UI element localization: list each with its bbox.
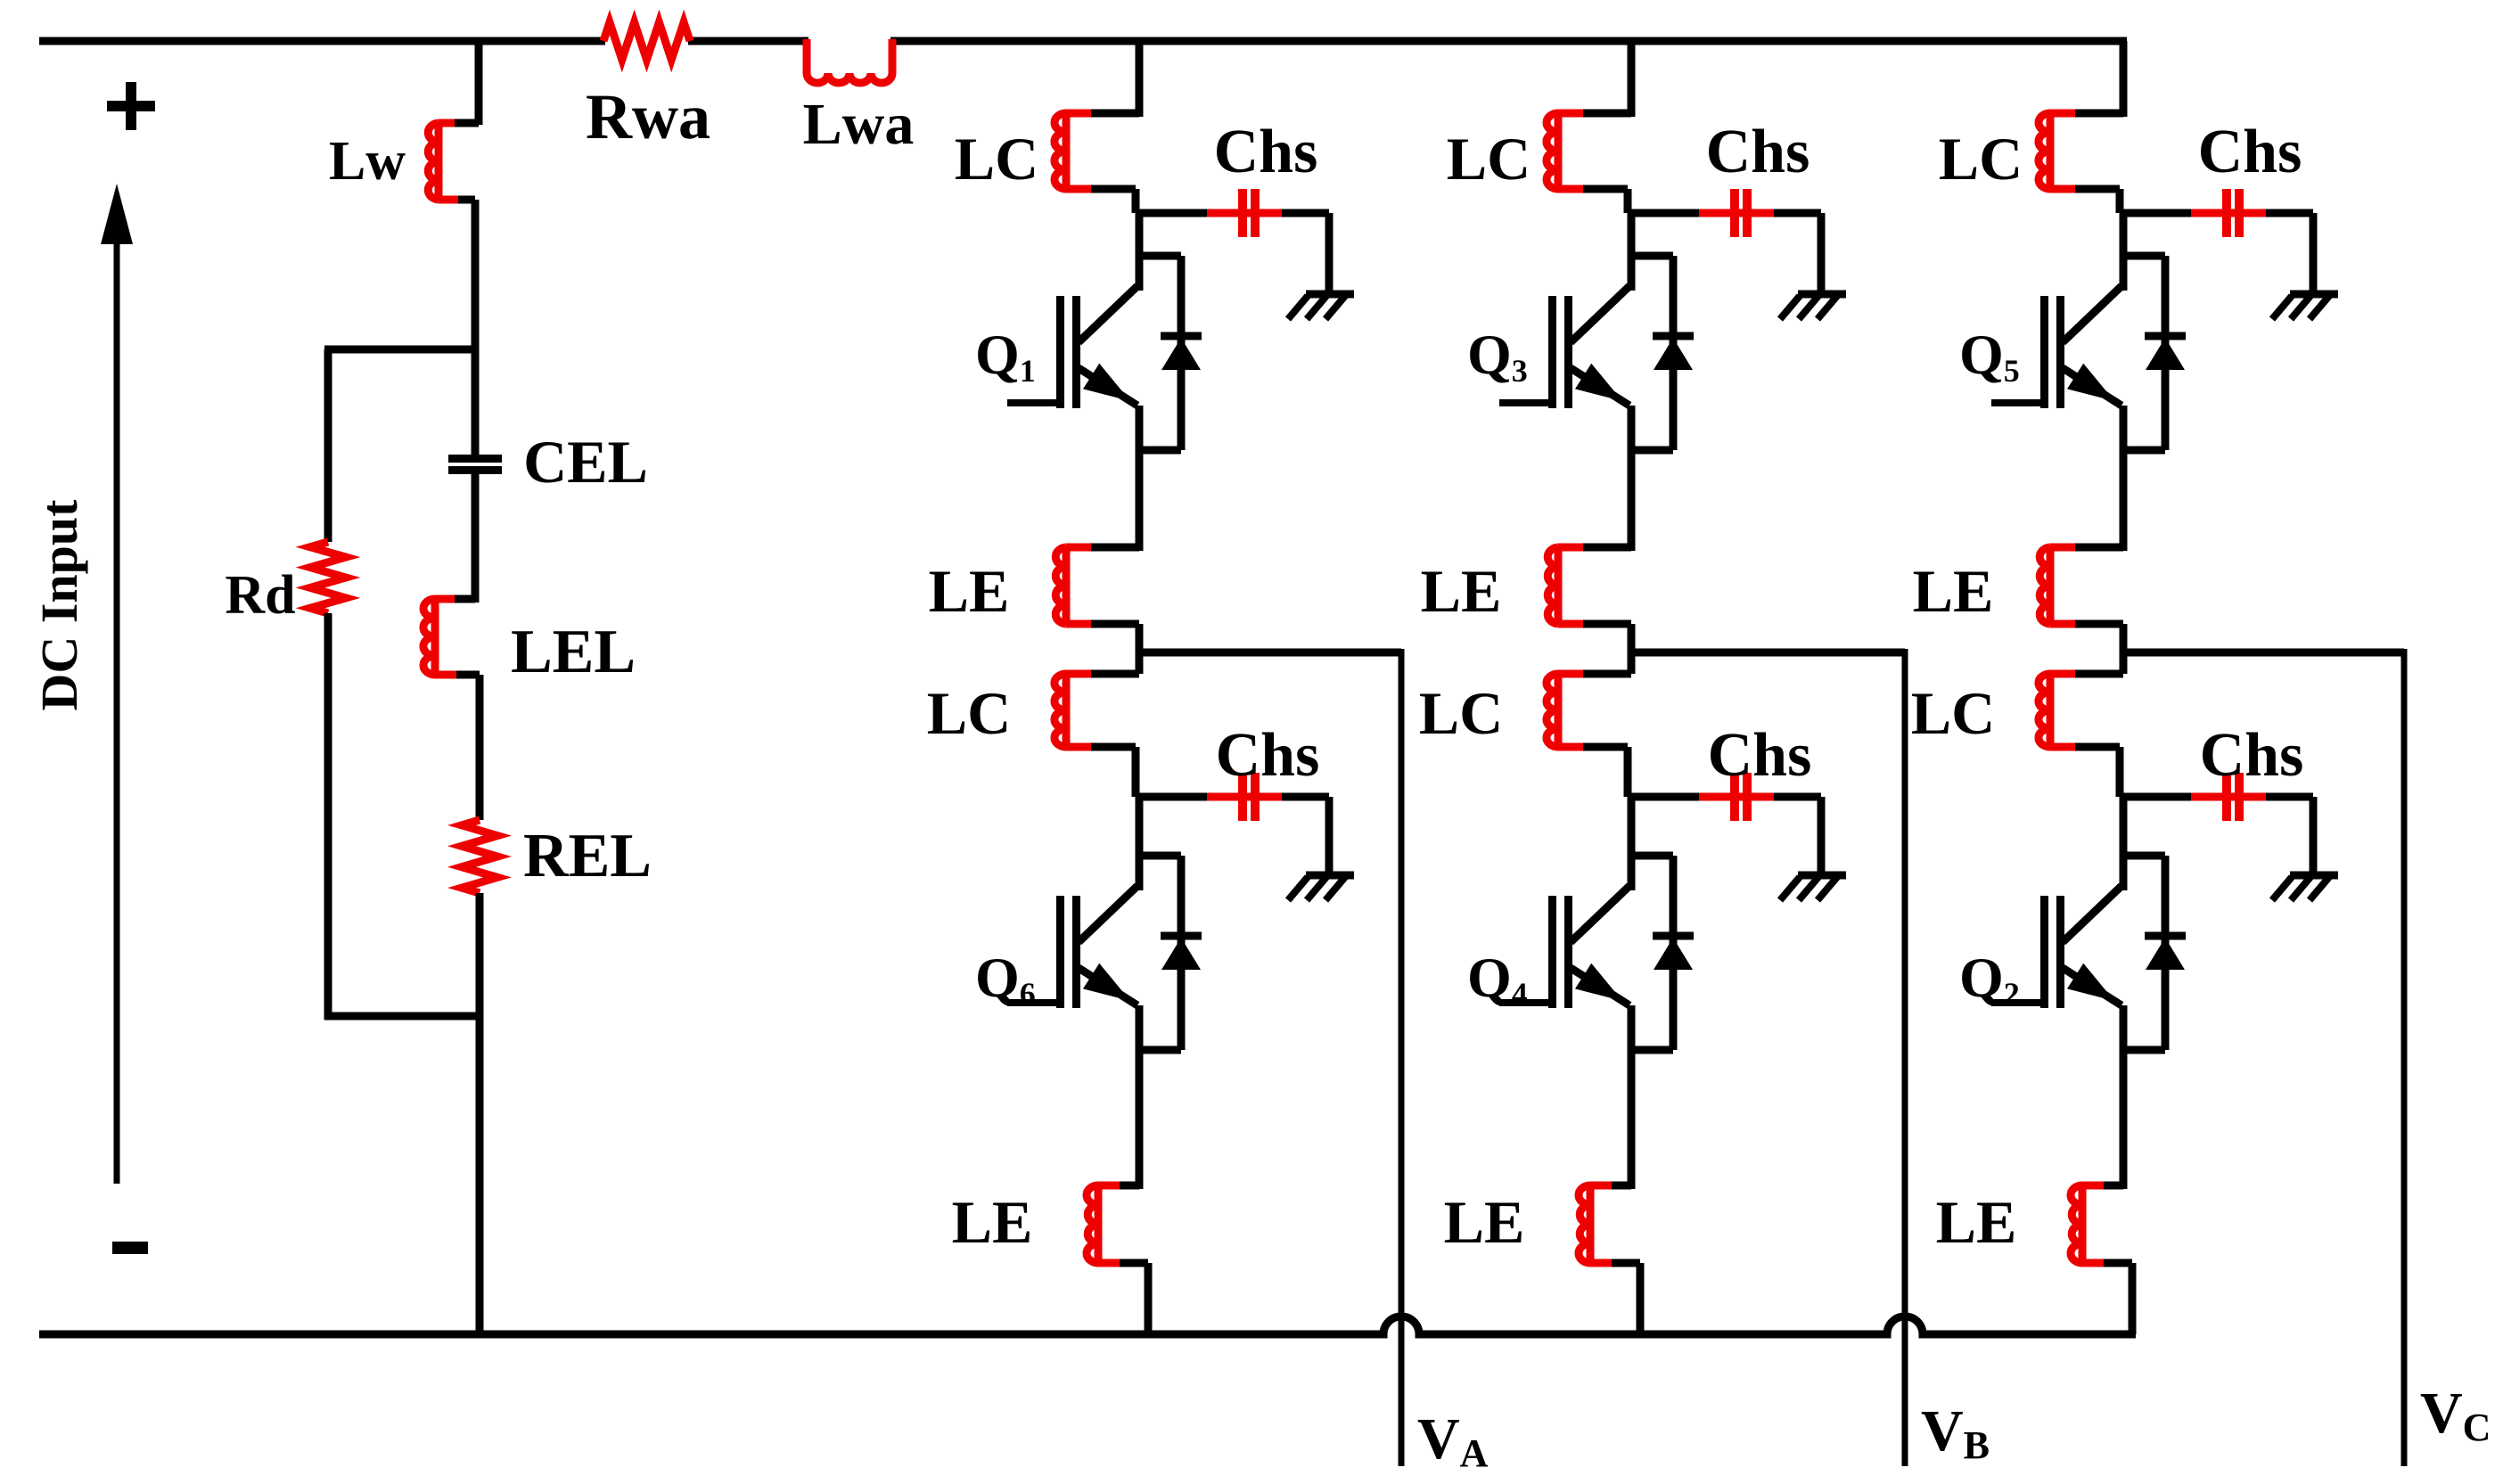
wire emitter leg C lower [2120,1005,2128,1189]
wire diode top tap lower leg A [1139,852,1181,860]
wire LC to collector node lower leg B [1624,747,1632,797]
wire REL to bottom rail [476,893,484,1334]
wire top DC+ rail middle segment [688,37,808,45]
svg-text:LE: LE [1421,557,1502,625]
wire leg C from top rail [2120,41,2128,117]
ground (upper, leg C) [2290,291,2338,299]
diode D2 [2162,856,2170,1050]
wire diode bottom tap lower leg B [1631,1046,1673,1054]
wire LC to collector node lower leg C [2116,747,2124,797]
svg-text:LC: LC [927,679,1011,747]
inductor LC (lower, leg A) [1136,652,1144,674]
capacitor Chs (lower, leg C) [2123,793,2191,801]
wire LE to phase node leg C [2120,624,2128,652]
wire bottom DC- rail with hops at VA and VB [39,1316,2136,1334]
wire diode top tap upper leg A [1139,252,1181,260]
wire emitter leg C upper [2120,406,2128,551]
svg-text:Chs: Chs [1216,721,1320,790]
capacitor Chs (upper, leg B) [1631,209,1699,217]
ground (lower, leg C) [2290,872,2338,880]
wire LEL to REL [476,675,484,820]
inductor LE (middle, leg C) [2075,544,2123,552]
wire emitter leg A lower [1136,1005,1144,1189]
DC input arrow [114,237,120,1184]
wire emitter leg B upper [1628,406,1636,551]
wire Chs to ground lower leg A [1325,797,1334,875]
wire Rd branch upper [324,349,332,542]
svg-text:LEL: LEL [511,618,636,686]
diode D1 [1178,256,1186,450]
node VA phase output wire [1139,649,1401,657]
gate lead Q3 [1499,399,1549,406]
inductor LE (bottom, leg C) [2104,1182,2123,1190]
ground (upper, leg A) [1306,291,1354,299]
resistor Rwa [603,22,690,60]
wire emitter leg B lower [1628,1005,1636,1189]
svg-text:Chs: Chs [1706,118,1810,186]
inductor LE (middle, leg A) [1091,544,1139,552]
svg-text:LC: LC [955,125,1038,193]
wire diode bottom tap upper leg C [2123,447,2165,455]
diode D5 [2162,256,2170,450]
inductor LE (bottom, leg A) [1120,1182,1139,1190]
wire collector lower leg A [1136,797,1144,890]
transistor Q5 [2063,286,2121,342]
ground (lower, leg A) [1306,872,1354,880]
wire collector lower leg B [1628,797,1636,890]
capacitor Chs (lower, leg A) [1139,793,1207,801]
wire Chs to ground upper leg C [2310,213,2318,294]
wire LE to bottom rail leg A [1145,1263,1153,1334]
svg-text:CEL: CEL [523,428,648,496]
transistor Q4 [1571,886,1629,942]
wire LC to collector node leg C [2116,189,2124,213]
wire diode bottom tap upper leg B [1631,447,1673,455]
inductor LC (upper, leg C) [2075,110,2123,118]
svg-text:Lwa: Lwa [803,92,915,157]
minus terminal label [112,1242,148,1254]
wire Lw to CEL [472,200,480,455]
capacitor CEL [448,455,502,463]
node VB phase output wire [1631,649,1905,657]
wire from top rail to Lw [475,41,483,125]
svg-text:DC Input: DC Input [30,499,88,711]
diode D6 [1178,856,1186,1050]
wire Rd bottom return [324,1013,480,1021]
inductor LE (middle, leg B) [1583,544,1631,552]
wire LC to collector node leg A [1132,189,1140,213]
resistor Rd [310,542,346,613]
wire collector lower leg C [2120,797,2128,890]
wire collector leg B [1628,213,1636,291]
wire collector leg C [2120,213,2128,291]
wire LC to collector node leg B [1624,189,1632,213]
ground (upper, leg B) [1798,291,1846,299]
transistor Q1 [1079,286,1137,342]
wire Chs to ground upper leg A [1325,213,1334,294]
inductor LE (bottom, leg B) [1612,1182,1631,1190]
wire top DC+ rail right segment [890,37,2127,45]
resistor REL [462,820,497,893]
ground (lower, leg B) [1798,872,1846,880]
wire LE to bottom rail leg C [2129,1263,2137,1334]
wire LC to collector node lower leg A [1132,747,1140,797]
node Rd top junction [324,346,475,354]
wire emitter leg A upper [1136,406,1144,551]
wire Chs to ground lower leg C [2310,797,2318,875]
wire Chs to ground upper leg B [1818,213,1826,294]
gate lead Q5 [1991,399,2041,406]
gate lead Q6 [1007,999,1057,1006]
wire leg B from top rail [1628,41,1636,117]
diode D3 [1670,256,1678,450]
wire LE to phase node leg A [1136,624,1144,652]
inductor Lw [455,119,479,127]
wire diode top tap upper leg B [1631,252,1673,260]
inductor LEL [455,595,475,603]
wire diode top tap upper leg C [2123,252,2165,260]
svg-text:LC: LC [1911,679,1995,747]
inductor Lwa [807,39,892,83]
transistor Q2 [2063,886,2121,942]
wire diode bottom tap lower leg A [1139,1046,1181,1054]
inductor LC (lower, leg B) [1628,652,1636,674]
wire leg A from top rail [1136,41,1144,117]
gate lead Q4 [1499,999,1549,1006]
svg-text:Chs: Chs [1214,118,1318,186]
transistor Q6 [1079,886,1137,942]
svg-text:Rwa: Rwa [586,81,710,152]
wire Rd branch lower [324,613,332,1020]
diode D4 [1670,856,1678,1050]
svg-text:LC: LC [1447,125,1531,193]
inductor LC (upper, leg A) [1091,110,1139,118]
svg-text:LE: LE [1936,1188,2017,1256]
svg-text:LC: LC [1939,125,2023,193]
wire diode top tap lower leg C [2123,852,2165,860]
svg-text:Rd: Rd [225,565,295,626]
svg-text:Chs: Chs [2198,118,2302,186]
inductor LC (lower, leg C) [2120,652,2128,674]
capacitor Chs (upper, leg A) [1139,209,1207,217]
svg-text:LE: LE [929,557,1010,625]
svg-text:REL: REL [523,822,652,890]
transistor Q3 [1571,286,1629,342]
gate lead Q2 [1991,999,2041,1006]
wire Chs to ground lower leg B [1818,797,1826,875]
svg-text:LE: LE [1913,557,1994,625]
inductor LC (upper, leg B) [1583,110,1631,118]
node VC phase output wire [2123,649,2404,657]
svg-text:LE: LE [952,1188,1033,1256]
capacitor Chs (lower, leg B) [1631,793,1699,801]
wire diode top tap lower leg B [1631,852,1673,860]
wire diode bottom tap upper leg A [1139,447,1181,455]
wire LE to bottom rail leg B [1637,1263,1645,1334]
svg-text:Chs: Chs [1708,721,1812,790]
wire diode bottom tap lower leg C [2123,1046,2165,1054]
svg-text:Chs: Chs [2200,721,2304,790]
svg-text:Lw: Lw [329,131,406,192]
plus terminal label [107,101,155,111]
wire CEL to LEL [472,474,480,603]
capacitor Chs (upper, leg C) [2123,209,2191,217]
svg-text:LC: LC [1419,679,1503,747]
wire top DC+ rail left segment [39,37,605,45]
svg-text:LE: LE [1444,1188,1525,1256]
wire LE to phase node leg B [1628,624,1636,652]
wire collector leg A [1136,213,1144,291]
gate lead Q1 [1007,399,1057,406]
